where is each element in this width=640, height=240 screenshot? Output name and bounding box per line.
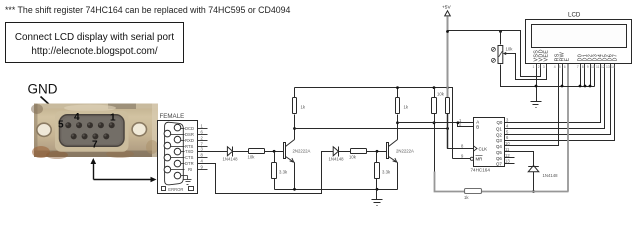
svg-text:Q4: Q4 [496, 144, 502, 149]
resistor R7 10k data pullup [434, 88, 436, 98]
wire R2 to ground rail [274, 179, 276, 190]
wire [339, 151, 351, 153]
svg-text:8: 8 [582, 65, 584, 69]
pin sockets bottom row [71, 133, 77, 139]
pin5 ground symbol [181, 176, 192, 185]
female pin wires to labels [171, 129, 185, 170]
svg-text:10k: 10k [349, 155, 357, 160]
diode D2 1N4148 [333, 147, 338, 157]
svg-text:1N4148: 1N4148 [223, 157, 239, 162]
junction Q1 emitter [293, 188, 296, 191]
IC right pin labels Q0-Q7 [496, 120, 503, 166]
junction 10k data pullup [433, 86, 436, 89]
svg-text:12: 12 [601, 65, 605, 69]
arrow photo to FEMALE [91, 158, 157, 182]
wire [233, 151, 249, 153]
svg-text:1k: 1k [404, 105, 409, 110]
wire TXD pin3 to stage1 [198, 151, 228, 153]
svg-text:1: 1 [110, 113, 116, 124]
RW to ground [562, 69, 564, 87]
pin sockets top row [65, 122, 114, 139]
junction +5V vertical [446, 86, 449, 89]
LCD pin stubs [537, 64, 615, 69]
female pin circles 6-9 [164, 130, 171, 137]
svg-text:7: 7 [92, 140, 98, 151]
mounting hole right [132, 123, 146, 136]
clock junction dot [446, 127, 449, 130]
diode D1 1N4148 [227, 147, 232, 157]
MR bubble [470, 157, 473, 160]
+5V rail top [295, 88, 453, 159]
resistor R8 10k clock pullup [446, 98, 450, 114]
DB9 connector photo [31, 104, 158, 160]
svg-text:74HC164: 74HC164 [471, 168, 491, 173]
Q1 emitter wire down [294, 163, 296, 190]
svg-text:9: 9 [587, 65, 589, 69]
+5V supply vertical wire [447, 17, 449, 149]
svg-text:5: 5 [58, 120, 64, 131]
svg-text:1: 1 [201, 124, 204, 129]
line A data to pins A B [398, 122, 474, 124]
svg-text:VEE: VEE [544, 50, 550, 62]
pot bottom to ground line [501, 65, 595, 87]
svg-text:1: 1 [533, 65, 535, 69]
node dot base Q1 [273, 150, 276, 153]
wire to Q1 base [265, 151, 285, 153]
GND pointer line [41, 97, 65, 119]
LCD pin labels [534, 49, 619, 61]
resistor R6 1k [396, 98, 400, 114]
svg-text:RI: RI [188, 167, 192, 172]
female pin circles 1-5 [164, 124, 181, 179]
svg-text:2: 2 [201, 136, 204, 141]
wire to Q2 base [367, 151, 387, 153]
Q2 collector wire up [397, 115, 399, 140]
node dot base Q2 [376, 150, 379, 153]
svg-text:Q7: Q7 [496, 162, 502, 167]
svg-text:D7: D7 [613, 54, 619, 62]
svg-text:Q0: Q0 [497, 120, 503, 125]
svg-text:http://elecnote.blogspot.com/: http://elecnote.blogspot.com/ [31, 46, 158, 57]
svg-text:+5V: +5V [442, 5, 451, 11]
clock wire to CLK pin [448, 114, 474, 149]
svg-text:1k: 1k [464, 195, 469, 200]
svg-text:Q1: Q1 [496, 127, 502, 132]
connector face plate [55, 111, 129, 152]
svg-text:DSR: DSR [185, 132, 194, 137]
pot adjust arrows [491, 47, 495, 62]
bottom rail E gating [435, 172, 465, 192]
svg-text:9: 9 [201, 165, 204, 170]
female box [158, 121, 198, 194]
female stubs right with pin numbers [198, 129, 208, 170]
ground rail bottom [275, 189, 398, 191]
svg-text:10k: 10k [506, 47, 514, 52]
diode D3 1N4148 vertical [528, 165, 539, 171]
svg-text:LCD: LCD [568, 12, 581, 19]
potentiometer VR1 10k [498, 46, 503, 64]
+5V symbol [445, 11, 451, 16]
stub Q7 [505, 163, 515, 165]
svg-text:DCD: DCD [185, 126, 194, 131]
svg-text:*** The shift register 74HC164: *** The shift register 74HC164 can be re… [5, 5, 291, 15]
svg-text:3.3k: 3.3k [382, 170, 391, 175]
VSS drop + ground [536, 69, 538, 102]
wire node to R3.3k [274, 152, 276, 163]
resistor R4 10k [351, 149, 367, 154]
Q1 collector node dot [293, 127, 296, 130]
IC left pin numbers [459, 118, 464, 159]
svg-text:6: 6 [564, 65, 566, 69]
svg-text:10k: 10k [437, 92, 445, 97]
svg-text:B: B [476, 124, 479, 129]
svg-text:8: 8 [201, 153, 204, 158]
svg-text:7: 7 [577, 65, 579, 69]
svg-text:14: 14 [611, 65, 615, 69]
svg-text:3: 3 [201, 146, 204, 151]
svg-text:Q5: Q5 [496, 150, 502, 155]
svg-text:11: 11 [596, 65, 600, 69]
LCD module [526, 20, 632, 64]
svg-text:13: 13 [606, 65, 610, 69]
svg-text:Q6: Q6 [496, 156, 502, 161]
resistor R5 3.3k [375, 163, 380, 179]
CLK triangle marker [474, 146, 478, 151]
svg-text:4: 4 [201, 159, 204, 164]
svg-text:9: 9 [461, 154, 464, 159]
wire Q1 to LCD D5 [505, 69, 605, 129]
svg-text:E: E [565, 58, 571, 62]
svg-text:4: 4 [74, 112, 80, 123]
svg-text:4: 4 [506, 124, 509, 129]
+5V feed to LCD VDD [448, 31, 541, 77]
svg-text:CTS: CTS [185, 155, 194, 160]
wire node to R5 [376, 152, 378, 163]
stub Q6 [505, 157, 515, 159]
E line up to LCD [567, 69, 569, 192]
IC left pin labels [476, 120, 488, 162]
data junction dot on line A [433, 121, 436, 124]
FEMALE connector diagram [158, 5, 632, 206]
resistor R1 10k [249, 149, 265, 154]
D3 wire to bottom rail [533, 172, 535, 192]
ground symbol LCD [531, 102, 542, 108]
Q2 emitter wire down [397, 163, 399, 190]
svg-text:5: 5 [506, 129, 509, 134]
transistor Q2 2N2222A [387, 140, 398, 163]
A-B tie [458, 123, 474, 127]
svg-text:6: 6 [201, 130, 204, 135]
DTR pin4 route [198, 152, 334, 194]
mounting hole left [37, 123, 51, 136]
svg-text:2N2222A: 2N2222A [293, 148, 311, 153]
svg-text:Connect LCD display with seria: Connect LCD display with serial port [15, 32, 174, 43]
svg-text:FEMALE: FEMALE [160, 113, 185, 120]
svg-text:Q3: Q3 [496, 138, 502, 143]
Q1 collector wire up [294, 115, 296, 140]
resistor R9 1k horizontal [465, 189, 482, 194]
svg-text:GND: GND [28, 82, 58, 97]
pot feed [500, 31, 502, 45]
MR wire to pin 9 [453, 158, 471, 160]
svg-text:4: 4 [554, 65, 556, 69]
D0-D3 to ground [580, 69, 582, 87]
svg-text:3: 3 [543, 65, 545, 69]
d-sub outline [165, 122, 184, 185]
female signal labels [185, 126, 194, 172]
svg-text:Q2: Q2 [496, 132, 502, 137]
R6 to +5V rail [397, 88, 399, 98]
svg-text:13: 13 [505, 159, 510, 164]
transistor Q1 2N2222A [284, 140, 295, 163]
clock line B to 74HC164 [295, 128, 448, 130]
svg-text:1N4148: 1N4148 [329, 157, 345, 162]
D-sub recess [60, 115, 125, 147]
svg-text:TXD: TXD [185, 149, 193, 154]
wire Q2 to LCD D6 [505, 69, 611, 135]
pot wiper arrow [499, 51, 503, 57]
resistor R2 3.3k [272, 163, 277, 179]
svg-text:5: 5 [559, 65, 561, 69]
svg-text:3: 3 [506, 118, 509, 123]
wire Q5 to diode D3 [505, 152, 534, 167]
data line vertical [434, 114, 436, 173]
error squares [162, 187, 166, 191]
svg-text:10k: 10k [248, 155, 256, 160]
svg-text:DTR: DTR [185, 161, 194, 166]
wire Q4 to LCD RS [505, 69, 559, 146]
svg-text:1N4148: 1N4148 [543, 173, 559, 178]
svg-text:3.3k: 3.3k [279, 170, 288, 175]
ground symbol mid [372, 190, 383, 206]
wire Q3 to LCD D7 [505, 69, 615, 141]
IC U1 74HC164 [474, 118, 505, 167]
pot wiper to LCD VEE [506, 54, 547, 80]
junction R6 top [396, 86, 399, 89]
junction R5/ground [376, 188, 379, 191]
svg-text:CLK: CLK [479, 146, 488, 151]
svg-text:8: 8 [461, 143, 464, 148]
svg-text:ERROR: ERROR [168, 187, 183, 192]
title box [6, 23, 184, 63]
svg-text:6: 6 [506, 135, 509, 140]
svg-text:2N2222A: 2N2222A [396, 148, 414, 153]
Q2 collector node dot [396, 121, 399, 124]
svg-text:10: 10 [591, 65, 595, 69]
svg-text:1k: 1k [301, 105, 306, 110]
svg-text:2: 2 [538, 65, 540, 69]
svg-text:MR: MR [476, 157, 483, 162]
wire Q0 to LCD D4 [505, 69, 601, 123]
resistor R3 1k [293, 98, 297, 114]
svg-text:RXD: RXD [185, 138, 194, 143]
LCD pin numbers [533, 65, 615, 69]
IC right pin numbers [505, 118, 510, 164]
R3 to +5V rail [294, 88, 296, 98]
wire R5 to ground rail [376, 179, 378, 190]
